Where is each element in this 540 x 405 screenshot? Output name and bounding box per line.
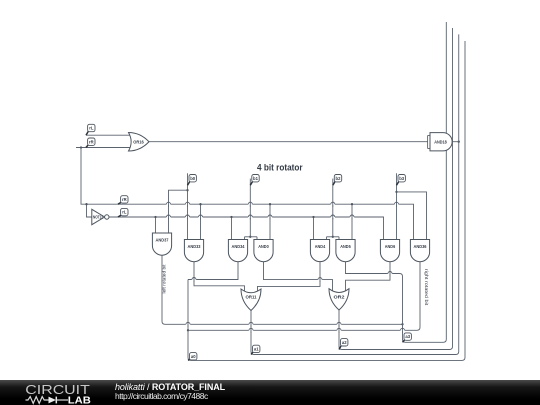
wire b1 jog to AND34 right and AND0 left pins bbox=[245, 237, 258, 240]
wire rL net: NOT output rail along y=217, into AND6 left pin bbox=[109, 217, 383, 240]
wire b2 jog to AND4 right and AND5 left pins bbox=[327, 237, 340, 240]
wire hop on rL rail bbox=[198, 215, 202, 220]
svg-text:OR11: OR11 bbox=[246, 295, 258, 300]
wire AND36 output - right rotated bit - down and across to a0 drop bbox=[188, 262, 420, 331]
node b2 jog junction bbox=[332, 236, 334, 238]
node rL-AND37 junction bbox=[154, 216, 156, 218]
wire hop on right-rotated-bit line bbox=[400, 328, 404, 333]
wire AND18 output bbox=[452, 141, 459, 143]
wire hop on left-rotated-bit line bbox=[337, 322, 341, 327]
wire hop on rL rail bbox=[166, 215, 170, 220]
wire rR net: down from OR16 input, rail along y=204, into AND36 left pin bbox=[81, 148, 414, 240]
svg-text:a2: a2 bbox=[342, 340, 347, 345]
wire hop on right-rotated-bit line bbox=[249, 328, 253, 333]
wire hop AND5 line over AND6 output bbox=[388, 271, 392, 276]
svg-text:rL: rL bbox=[122, 210, 127, 215]
svg-text:a1: a1 bbox=[254, 347, 259, 352]
flag rL (rail tap) bbox=[118, 208, 128, 217]
label right rotated bit bbox=[424, 269, 429, 306]
wire hop on rR rail bbox=[248, 202, 252, 207]
svg-text:AND36: AND36 bbox=[414, 244, 428, 249]
flag a3 bbox=[403, 333, 412, 342]
svg-text:AND6: AND6 bbox=[385, 244, 396, 249]
wire b0 drop to AND33 left pin bbox=[187, 173, 189, 239]
svg-text:right rotated bit: right rotated bit bbox=[424, 269, 429, 306]
node b3 jog junction bbox=[395, 191, 397, 193]
node rL-AND4 junction bbox=[312, 216, 314, 218]
wire AND6 output to OR2 right input bbox=[346, 262, 391, 294]
wire hop on left-rotated-bit line bbox=[186, 322, 190, 327]
wire rR rail to AND5 right pin bbox=[351, 204, 353, 239]
wire rL rail to AND34 left pin bbox=[231, 217, 233, 240]
node rL-AND34 junction bbox=[230, 216, 232, 218]
and-gate AND4 bbox=[310, 240, 329, 262]
svg-text:AND37: AND37 bbox=[156, 238, 170, 243]
flag rL (OR16 input) bbox=[86, 124, 95, 135]
and-gate AND34 bbox=[228, 240, 247, 262]
wire rL rail to AND37 left pin bbox=[155, 217, 157, 233]
wire hop on rR rail bbox=[185, 202, 189, 207]
wire hop on rL rail bbox=[185, 215, 189, 220]
wire rR rail to AND33 right pin bbox=[200, 204, 202, 239]
wire OR16 output to AND18 bbox=[149, 141, 428, 143]
and-gate AND6 bbox=[380, 240, 399, 262]
wire OR2 output down to a2 run to right side bbox=[339, 28, 453, 350]
wire hop on rL rail bbox=[248, 215, 252, 220]
or-gate OR2 bbox=[329, 289, 349, 310]
wire AND34 output across to a0 drop bbox=[188, 262, 238, 280]
wire hop on rR rail bbox=[394, 202, 398, 207]
svg-text:AND33: AND33 bbox=[188, 244, 202, 249]
wire b2 drop bbox=[332, 179, 334, 237]
svg-text:b2: b2 bbox=[336, 176, 342, 181]
wire hop on rL rail bbox=[350, 215, 354, 220]
and-gate AND37 bbox=[152, 233, 171, 255]
svg-text:4 bit rotator: 4 bit rotator bbox=[257, 163, 303, 174]
node b1 jog junction bbox=[249, 236, 251, 238]
svg-text:rR: rR bbox=[122, 197, 127, 202]
wire hop AND0 line over AND4 output bbox=[318, 277, 322, 282]
svg-text:AND5: AND5 bbox=[340, 244, 351, 249]
flag a2 bbox=[339, 339, 348, 350]
node rR-AND5 junction bbox=[351, 203, 353, 205]
wire rR rail to AND0 right pin bbox=[269, 204, 271, 239]
wire hop on rR rail bbox=[166, 202, 170, 207]
svg-text:b0: b0 bbox=[190, 176, 196, 181]
wire b1 drop bbox=[249, 179, 251, 237]
wire AND18 input stubs bbox=[428, 136, 430, 149]
node AND18 output junction on a1 return wire bbox=[458, 141, 460, 143]
node a3 wire junction bbox=[401, 323, 403, 325]
wire rL rail to AND4 left pin bbox=[313, 217, 315, 240]
wire rR input to OR16 bbox=[76, 147, 131, 149]
wire b3 jog to AND36 right pin bbox=[397, 192, 427, 240]
node rR rail to NOT branch junction bbox=[85, 203, 87, 205]
footer credit text bbox=[115, 383, 225, 402]
svg-text:LAB: LAB bbox=[68, 396, 92, 405]
wire branch to NOT gate input bbox=[87, 204, 92, 217]
svg-text:NOT13: NOT13 bbox=[93, 215, 103, 220]
wire hop on right-rotated-bit line bbox=[337, 328, 341, 333]
footer bar bbox=[0, 380, 540, 405]
wire OR11 output down to a1 run to right side bbox=[251, 34, 459, 354]
svg-text:AND0: AND0 bbox=[258, 244, 269, 249]
and-gate AND5 bbox=[336, 240, 355, 262]
inverter NOT13 bbox=[92, 209, 109, 224]
label left rotated bit bbox=[162, 264, 167, 294]
wire hop on rL rail bbox=[268, 215, 272, 220]
svg-text:AND4: AND4 bbox=[315, 244, 326, 249]
svg-text:OR2: OR2 bbox=[334, 294, 346, 299]
and-gate AND33 bbox=[184, 240, 203, 262]
flag b0 bbox=[188, 175, 197, 186]
svg-text:OR16: OR16 bbox=[133, 140, 144, 145]
wire AND5 output across and down to a3 run to right side bbox=[346, 22, 447, 342]
and-gate AND36 bbox=[410, 240, 429, 262]
svg-text:AND18: AND18 bbox=[434, 140, 447, 145]
CircuitLab logo bbox=[0, 380, 110, 405]
svg-text:a0: a0 bbox=[191, 354, 196, 359]
svg-text:b1: b1 bbox=[253, 176, 259, 181]
wire b3 drop to AND6 right pin bbox=[396, 173, 398, 239]
flag rR (rail tap) bbox=[118, 196, 128, 205]
label 4 bit rotator bbox=[257, 163, 303, 174]
svg-text:b3: b3 bbox=[399, 176, 405, 181]
wire hop on rR rail bbox=[331, 202, 335, 207]
wire AND0 output to OR2 left input bbox=[264, 262, 333, 294]
svg-text:rR: rR bbox=[89, 139, 94, 144]
svg-text:a3: a3 bbox=[405, 334, 410, 339]
wire AND33 output to OR11 left input bbox=[194, 262, 245, 294]
svg-text:AND34: AND34 bbox=[232, 244, 246, 249]
and-gate AND0 bbox=[254, 240, 273, 262]
wire b0 jog to AND37 right pin bbox=[169, 190, 188, 233]
svg-text:left rotated bit: left rotated bit bbox=[162, 264, 167, 294]
node b0 jog junction bbox=[186, 189, 188, 191]
flag a0 bbox=[188, 353, 197, 361]
wire hop on rL rail bbox=[331, 215, 335, 220]
wire AND4 output to OR11 right input bbox=[258, 262, 321, 294]
flag b1 bbox=[250, 175, 259, 186]
flag a1 bbox=[251, 345, 260, 354]
node rR junction bbox=[80, 146, 82, 148]
or-gate OR11 bbox=[241, 289, 261, 311]
wire hop AND34 line over AND33 output bbox=[192, 277, 196, 282]
wire AND37 output - left rotated bit - down and across to a3 node bbox=[162, 255, 403, 324]
node rR-AND0 junction bbox=[269, 203, 271, 205]
node rR-AND33 junction bbox=[199, 203, 201, 205]
svg-text:rL: rL bbox=[89, 126, 94, 131]
wire hop on left-rotated-bit line bbox=[249, 322, 253, 327]
wire a0 drop with flag a0 run to right side bbox=[188, 41, 465, 360]
or-gate OR16 bbox=[129, 133, 150, 152]
node a0 junction with AND36 wire bbox=[187, 329, 189, 331]
and-gate AND18 bbox=[430, 133, 452, 151]
flag b3 bbox=[397, 175, 406, 186]
wire rL input to OR16 bbox=[86, 134, 131, 136]
flag b2 bbox=[333, 175, 342, 186]
flag rR (OR16 input) bbox=[86, 138, 95, 148]
